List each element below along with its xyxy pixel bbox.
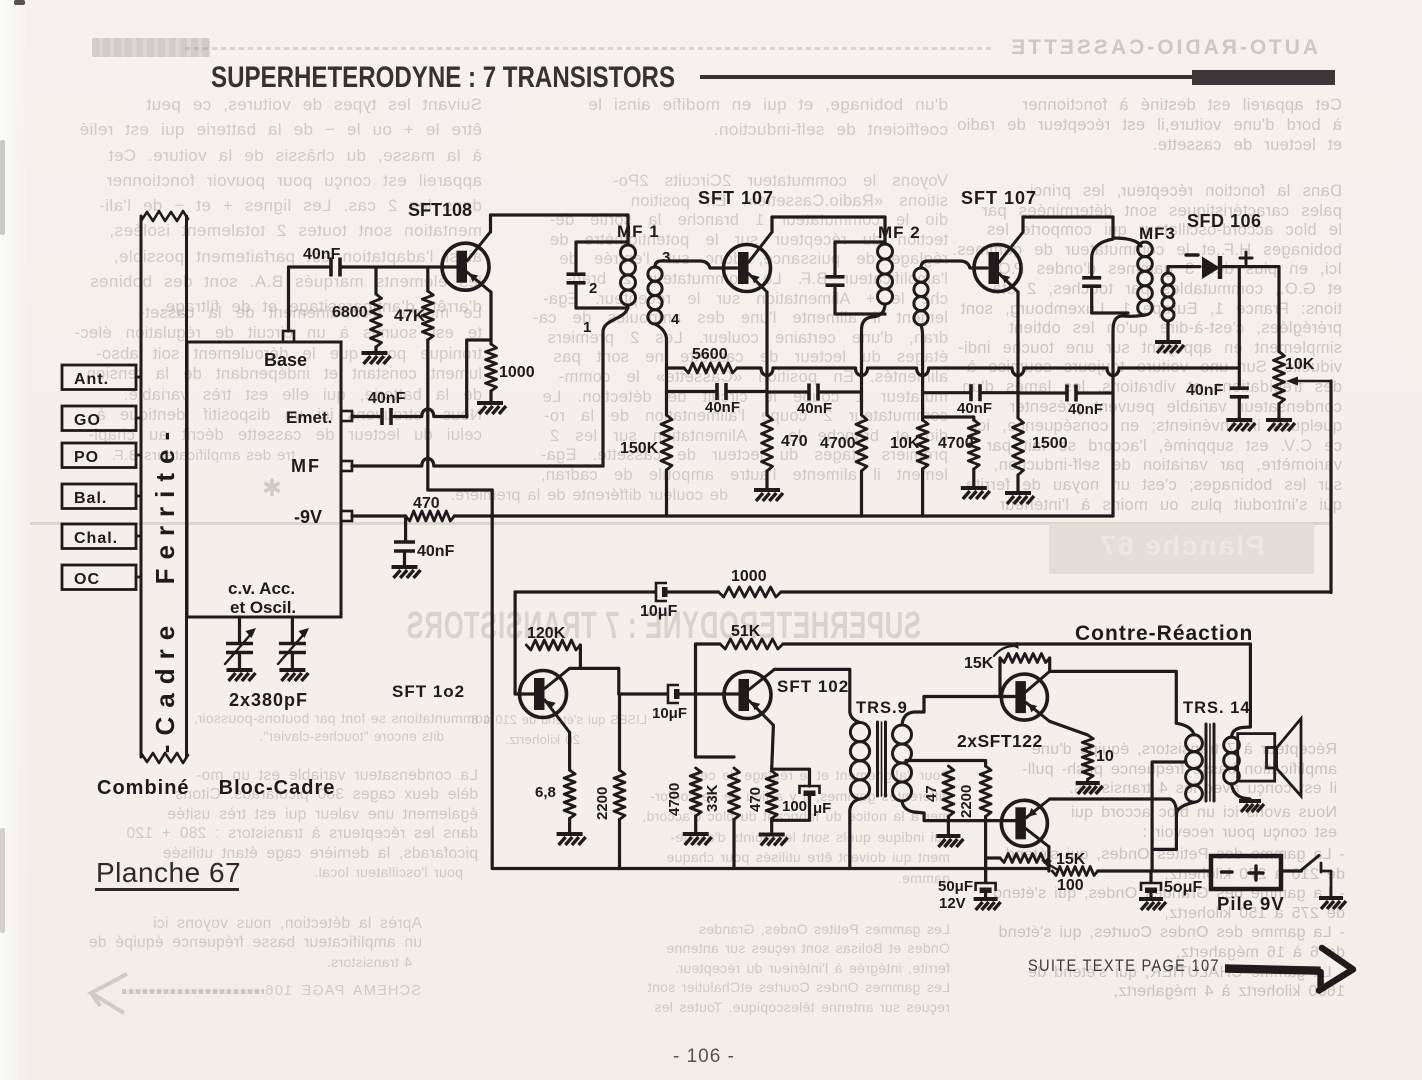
wire R22 to ground: [1086, 779, 1089, 781]
faded grey box (show-through Planche 67 banner): [1049, 524, 1314, 574]
wire collector node Q4: [570, 668, 619, 694]
wire TRS.9 mid tap: [906, 759, 984, 762]
capacitor 40nF C5: [969, 384, 973, 401]
svg-text:SFT108: SFT108: [408, 200, 472, 220]
ground under C8: [392, 565, 418, 569]
terminal -9V (square): [341, 511, 352, 521]
resistor 47K R2 top wire: [426, 267, 429, 291]
ground MF3 secondary: [1155, 340, 1181, 344]
svg-text:PO: PO: [74, 449, 99, 466]
variable capacitor CV1 plates: [226, 642, 253, 646]
wire C6 to MF3 primary return: [1078, 391, 1114, 394]
resistor 10 R22: [1082, 735, 1093, 779]
wire R14 to ground: [568, 819, 571, 833]
ground under C7: [1226, 418, 1252, 422]
inductor MF2 secondary coil: [914, 268, 928, 282]
wire emitter1 to C4: [767, 390, 808, 393]
TRS.9 core: [876, 722, 879, 796]
wire pot to ground: [1277, 404, 1280, 418]
transistor SFT107 Q3: [974, 245, 1021, 292]
resistor 6800 R1 wire: [374, 267, 377, 294]
ground under 6800: [362, 351, 388, 355]
svg-text:2xSFT122: 2xSFT122: [957, 731, 1043, 751]
wire Q4 collector output: [619, 692, 667, 695]
resistor 1000 R3 (emitter): [486, 344, 497, 391]
resistor 6800 R1: [371, 294, 382, 347]
ground under R10: [1005, 491, 1031, 495]
wire C4 to MF2 primary return: [820, 390, 862, 393]
ground under R6: [754, 488, 780, 492]
svg-text:SFD 106: SFD 106: [1187, 211, 1262, 231]
diode minus sign: [1186, 253, 1198, 256]
svg-text:50μF: 50μF: [938, 878, 973, 895]
svg-text:6,8: 6,8: [535, 784, 556, 801]
resistor 1000 R12: [719, 587, 782, 597]
svg-text:10μF: 10μF: [652, 705, 687, 722]
svg-text:1000: 1000: [499, 364, 535, 381]
speaker HP1 cone: [1277, 719, 1302, 797]
capacitor 50uF C13: [1141, 883, 1161, 891]
svg-text:4700: 4700: [938, 435, 974, 452]
svg-text:470: 470: [747, 787, 764, 812]
wire wiper down to BF input: [1329, 381, 1332, 593]
faint show-through rule mid page: [30, 522, 1330, 525]
wire TRS.14 primary top curve: [1176, 723, 1194, 735]
wire Q2 emitter down: [765, 292, 768, 415]
capacitor 50uF C12: [976, 883, 996, 891]
wire Q5 collector: [774, 669, 860, 722]
diode SFD106 D1: [1202, 257, 1220, 280]
faded smudge bar top-left: [92, 38, 210, 57]
wire C9 to R12: [668, 590, 719, 593]
wire TRS.14 secondary bottom: [1232, 784, 1251, 799]
resistor 33K R17: [729, 768, 740, 820]
wire P1 right to collector: [1048, 658, 1051, 671]
switch lever: [1301, 856, 1319, 871]
MF3 tuning capacitor plates: [1082, 276, 1101, 280]
wire C11 bottom to emitter resistor: [772, 796, 810, 820]
wire P2 left to bias node: [986, 856, 1000, 859]
wire R15 to bottom rail: [618, 820, 621, 869]
faded dashed rule under smudge: [185, 47, 995, 50]
wire C2 to emitter node: [394, 409, 467, 417]
MF1 tuning capacitor plates: [567, 272, 586, 276]
MF2 tuning capacitor plates: [826, 275, 845, 279]
inductor TRS.9 primary: [850, 723, 869, 742]
capacitor 10uF C9: [656, 583, 667, 601]
wire Q3 collector to MF3: [1023, 217, 1113, 237]
tuner block rectangle (bloc-cadre): [187, 342, 341, 617]
wire variable capacitor stub 2: [291, 617, 294, 641]
antenna terminal box OC: [62, 565, 136, 590]
wire SFT108 emitter: [489, 292, 492, 344]
svg-text:10μF: 10μF: [640, 603, 678, 620]
wire battery plus to switch: [1281, 869, 1301, 872]
title rule: [700, 75, 1193, 79]
svg-text:40nF: 40nF: [1068, 401, 1103, 418]
wire C12 to ground: [984, 894, 987, 898]
wire MF2 primary bottom down: [862, 304, 886, 415]
wire R13 right end down: [579, 645, 582, 668]
antenna torn-paper top edge: [141, 211, 188, 221]
ground CV2: [279, 668, 305, 672]
antenna terminal box PO: [62, 443, 136, 468]
svg-text:et Oscil.: et Oscil.: [230, 598, 296, 617]
svg-text:2: 2: [589, 280, 597, 297]
wire Q4 emitter: [568, 732, 571, 770]
wire feedback line (Contre-Reaction): [783, 642, 1250, 645]
speaker HP1 frame: [1238, 734, 1275, 782]
capacitor 100uF C11: [800, 786, 820, 794]
MF1 tuning capacitor branch top: [576, 242, 628, 271]
wire MF3 secondary top to diode: [1168, 267, 1200, 273]
wire bias divider vertical: [696, 644, 735, 757]
MF1 tuning capacitor branch bottom: [576, 285, 628, 308]
speaker HP1 magnet: [1267, 748, 1277, 769]
inductor MF3 secondary coil: [1162, 273, 1174, 285]
wire -9V terminal to R11: [352, 514, 406, 517]
wire C7 to ground: [1238, 398, 1241, 418]
wire R10 to ground: [1016, 475, 1019, 491]
transistor SFT102 Q4: [520, 671, 567, 718]
svg-text:1: 1: [583, 319, 591, 336]
wire branch to R8: [923, 417, 974, 420]
svg-text:1500: 1500: [1032, 435, 1068, 452]
antenna terminal box GO: [62, 406, 136, 431]
wire emitter node to C11 top: [772, 769, 810, 786]
svg-text:2x380pF: 2x380pF: [229, 690, 308, 710]
wire Q7 collector to TRS.14 bottom: [1050, 799, 1177, 814]
wire C10 to Q5 base: [680, 692, 740, 695]
wire R7 to -9V rail: [860, 471, 863, 516]
wire 50uF branch: [1149, 871, 1152, 882]
wire R3 to ground: [489, 391, 492, 401]
inductor MF2 primary coil: [878, 244, 893, 259]
resistor 100 R23: [1052, 867, 1098, 876]
battery Pile 9V box: [1211, 856, 1281, 889]
svg-text:120K: 120K: [527, 625, 566, 642]
svg-text:3: 3: [662, 249, 670, 266]
terminal MF (square): [341, 461, 352, 471]
resistor 2200 R21 stub: [984, 761, 987, 767]
wire R19 to ground: [770, 819, 773, 833]
resistor 5600 R5: [684, 363, 737, 373]
svg-text:40nF: 40nF: [303, 246, 341, 263]
capacitor 40nF C3: [715, 383, 719, 400]
MF2 tuning capacitor branch top: [835, 242, 885, 274]
wire MF1 secondary top to SFT107 base: [655, 261, 737, 268]
resistor 47K R2: [422, 291, 433, 340]
wire MF1 pin4 down: [655, 324, 667, 415]
transistor SFT102 Q5: [724, 672, 771, 719]
wire R21 down to bias node: [984, 817, 987, 883]
svg-text:15K: 15K: [964, 655, 994, 672]
svg-text:MF: MF: [291, 456, 321, 476]
wire C13 to ground: [1149, 894, 1152, 898]
wire top feed y592: [515, 590, 655, 593]
antenna terminal box Bal.: [62, 484, 136, 509]
wire MF3 secondary bottom to ground: [1166, 321, 1169, 340]
svg-text:SFT 107: SFT 107: [698, 188, 774, 208]
svg-text:12V: 12V: [939, 895, 966, 912]
svg-text:100: 100: [782, 798, 807, 815]
wire R4 to -9V rail: [665, 470, 668, 516]
ground under switch: [1319, 896, 1343, 900]
wire MF1 pin1 to MF terminal: [603, 305, 628, 466]
svg-text:10K: 10K: [1285, 356, 1315, 373]
wire R2 down to -9V feed corner: [428, 340, 492, 490]
transistor SFT107 Q2: [724, 245, 771, 292]
resistor 4700 R8: [968, 420, 979, 469]
resistor 470 R11 (rail): [406, 511, 455, 521]
svg-text:Pile 9V: Pile 9V: [1217, 893, 1285, 914]
suite arrow head: [1319, 948, 1353, 991]
svg-text:470: 470: [413, 495, 440, 512]
wire R12 to feedback corner: [781, 590, 1331, 593]
ground CV1: [227, 668, 253, 672]
schematic: [262, 474, 282, 503]
wire rail bypass branch: [404, 516, 407, 540]
svg-text:40nF: 40nF: [705, 399, 740, 416]
faded mirrored arrow bottom-left: [122, 989, 264, 994]
svg-text:4: 4: [671, 311, 680, 328]
svg-text:10: 10: [1096, 748, 1114, 765]
wire Q6 emitter: [1050, 721, 1088, 735]
wire emitter node to Emet bypass: [467, 340, 491, 417]
wire Base terminal up to base bus: [289, 267, 330, 331]
paper edge shading left: [0, 0, 30, 1080]
wire Q3 emitter down: [1016, 292, 1019, 418]
wire R6 to ground: [765, 471, 768, 488]
resistor 2200 R15 drop: [618, 694, 621, 770]
corner mark top-left: [14, 0, 25, 5]
svg-text:μF: μF: [813, 800, 831, 817]
capacitor 40nF C8 (rail bypass): [394, 540, 415, 544]
svg-text:47: 47: [923, 785, 940, 802]
wire R23 to battery: [1098, 869, 1211, 872]
ground under C13: [1139, 897, 1163, 901]
svg-text:SFT 107: SFT 107: [961, 188, 1037, 208]
suite arrow shaft: [1225, 964, 1321, 975]
capacitor 40nF C6: [1065, 385, 1069, 402]
wire R20 to ground: [947, 817, 950, 835]
resistor 47 R20: [943, 766, 954, 817]
wire -9V rail: [454, 514, 1113, 517]
resistor 51K R18 left wire: [696, 642, 721, 645]
potentiometer 15K P2: [1000, 854, 1049, 863]
svg-text:40nF: 40nF: [957, 400, 992, 417]
svg-text:470: 470: [781, 433, 808, 450]
ground under 1000: [477, 401, 503, 405]
wire R8 to ground: [972, 469, 975, 486]
antenna torn-paper bottom edge: [141, 753, 188, 763]
resistor 150K R4: [661, 415, 672, 470]
wire MF2 primary top: [883, 217, 886, 244]
wire C3 to emitter1: [728, 390, 768, 393]
wire MF3 primary bottom down: [1113, 315, 1145, 516]
svg-text:-Cadre Ferrite-: -Cadre Ferrite-: [150, 423, 180, 753]
wire decoupling branch left: [667, 390, 716, 393]
volume wiper arrow: [1297, 380, 1331, 382]
capacitor 10uF C10: [668, 685, 679, 703]
wire base feed vertical: [515, 592, 535, 694]
terminal Emet. (square): [341, 411, 352, 421]
antenna frame Cadre Ferrite left rail: [140, 216, 143, 757]
svg-text:OC: OC: [74, 571, 100, 588]
paper edge marks left: [0, 140, 5, 235]
svg-text:150K: 150K: [620, 440, 659, 457]
variable capacitor CV1 arrow: [225, 634, 251, 664]
svg-text:40nF: 40nF: [417, 543, 455, 560]
svg-text:6800: 6800: [332, 304, 368, 321]
resistor 2200 R15: [614, 770, 625, 820]
MF3 tuning cap bottom: [1092, 289, 1128, 313]
svg-text:40nF: 40nF: [1186, 382, 1224, 399]
wire SFT108 collector to MF1: [491, 215, 629, 232]
svg-text:Ant.: Ant.: [74, 371, 109, 388]
wire switch to ground: [1321, 863, 1331, 896]
potentiometer 10K volume: [1274, 352, 1285, 404]
svg-text:47K: 47K: [394, 306, 426, 325]
svg-text:100: 100: [1057, 877, 1084, 894]
ground under R14: [557, 832, 583, 836]
wire emitter2 to C6: [1018, 391, 1066, 394]
wire TRS.9 secondary bottom to Q7 base: [902, 801, 1016, 821]
svg-text:2200: 2200: [594, 787, 611, 820]
ground under R22: [1076, 781, 1100, 785]
svg-text:10K: 10K: [890, 435, 920, 452]
svg-text:4700: 4700: [666, 783, 683, 816]
TRS.14 core: [1205, 724, 1208, 801]
resistor 2200 R21: [980, 766, 991, 817]
svg-text:-9V: -9V: [294, 507, 322, 527]
svg-text:5oμF: 5oμF: [1164, 879, 1202, 896]
svg-text:GO: GO: [74, 412, 101, 429]
wire R17 to bottom rail: [732, 820, 735, 869]
ground under volume pot: [1266, 418, 1292, 422]
inductor MF1 secondary coil: [648, 267, 662, 281]
wire TRS.14 center tap: [1152, 762, 1186, 871]
ground under C12: [974, 897, 998, 901]
svg-text:33K: 33K: [704, 784, 721, 812]
svg-text:MF3: MF3: [1139, 224, 1176, 243]
svg-text:5600: 5600: [692, 346, 728, 363]
variable capacitor CV2 plates: [279, 642, 306, 646]
resistor 120K R13: [526, 640, 580, 650]
transistor SFT122 Q7 (lower): [1001, 800, 1047, 846]
resistor 6.8 R14: [564, 770, 575, 819]
svg-text:TRS. 14: TRS. 14: [1183, 699, 1251, 717]
wire C8 to ground: [403, 553, 406, 565]
wire MF terminal bus: [352, 459, 603, 467]
svg-text:TRS.9: TRS.9: [856, 699, 908, 717]
wire R9 to -9V rail: [921, 469, 924, 516]
svg-text:40nF: 40nF: [797, 400, 832, 417]
inductor MF1 primary coil: [621, 245, 636, 260]
wire Q2 collector to MF2: [772, 217, 885, 232]
transistor SFT108 Q1: [442, 243, 489, 290]
wire TRS.9 secondary top to Q6 base: [902, 697, 1016, 726]
capacitor 40nF C7 (detector): [1230, 386, 1249, 390]
svg-text:2200: 2200: [958, 785, 975, 818]
wire variable capacitor stub 1: [238, 617, 241, 641]
handwritten captions: [97, 777, 335, 800]
svg-text:Chal.: Chal.: [74, 530, 118, 547]
potentiometer 15K P1: [1000, 654, 1050, 663]
P2 wiper arrow: [1046, 863, 1058, 870]
wire AGC bus left: [667, 366, 685, 369]
P1 wiper arrow: [994, 646, 1014, 656]
resistor 470 R19: [766, 771, 777, 819]
title end bar: [1192, 70, 1335, 85]
wire CV2 to ground: [291, 655, 294, 668]
inductor MF3 primary coil: [1138, 242, 1153, 257]
variable capacitor CV2 arrow: [278, 634, 304, 664]
wire MF2 secondary bottom down: [921, 325, 923, 420]
main title: [211, 61, 675, 95]
wire TRS.14 primary bottom: [1152, 802, 1194, 849]
wire AGC bus with hops: [737, 368, 1239, 376]
diode plus sign: [1240, 252, 1252, 264]
wire R16 to ground: [694, 816, 697, 832]
inductor TRS.14 primary: [1186, 735, 1203, 752]
wire bias node down to C12: [984, 858, 987, 882]
capacitor 40nF C2 (Emet): [380, 408, 384, 425]
wire TRS.14 secondary top to feedback: [1232, 645, 1251, 737]
wire Emet terminal: [352, 415, 379, 418]
svg-text:MF 1: MF 1: [617, 222, 660, 241]
inductor TRS.9 secondary: [893, 725, 912, 744]
ground under R16: [683, 832, 709, 836]
ground under R8: [961, 486, 987, 490]
antenna frame right rail: [185, 216, 188, 757]
resistor 4700 R7: [856, 415, 867, 471]
svg-text:40nF: 40nF: [368, 390, 406, 407]
svg-text:Emet.: Emet.: [286, 408, 332, 427]
resistor 10K R9 (MF2 return): [917, 420, 928, 469]
wire MF3 primary top: [1113, 238, 1141, 246]
resistor 51K R18: [720, 639, 783, 649]
ground under R19: [759, 833, 785, 837]
resistor 4700 R16: [690, 768, 701, 816]
svg-text:4700: 4700: [820, 435, 856, 452]
node detector output branch: [1238, 267, 1241, 387]
wire C5 to emitter2: [982, 391, 1019, 394]
svg-text:SFT 102: SFT 102: [777, 677, 849, 696]
wire branch to C5: [923, 391, 970, 394]
svg-text:1000: 1000: [731, 568, 767, 585]
wire CV1 to ground: [238, 655, 241, 668]
MF2 tuning capacitor branch bottom: [835, 288, 885, 314]
capacitor 40nF C1 (base coupling): [329, 258, 333, 277]
wire MF1 primary top: [626, 215, 629, 245]
battery minus mark: [1222, 870, 1233, 873]
wire P1 left to base: [998, 658, 1001, 697]
wire Q5 emitter: [772, 725, 774, 771]
wire Q7 emitter: [1047, 847, 1050, 871]
wire C1 to SFT108 base: [342, 265, 458, 268]
svg-text:SFT 1o2: SFT 1o2: [392, 682, 465, 701]
svg-text:c.v. Acc.: c.v. Acc.: [228, 579, 295, 598]
ground under R20: [936, 834, 960, 838]
antenna terminal box Ant.: [62, 365, 136, 390]
wire diode output: [1222, 267, 1279, 352]
resistor 1500 R10 (emitter Q3): [1013, 418, 1024, 475]
svg-text:51K: 51K: [731, 623, 761, 640]
wire left supply drop and bottom rail: [492, 490, 1049, 869]
transistor SFT122 Q6 (upper): [1001, 674, 1047, 720]
wire TRS.9 primary bottom to rail: [850, 799, 860, 869]
